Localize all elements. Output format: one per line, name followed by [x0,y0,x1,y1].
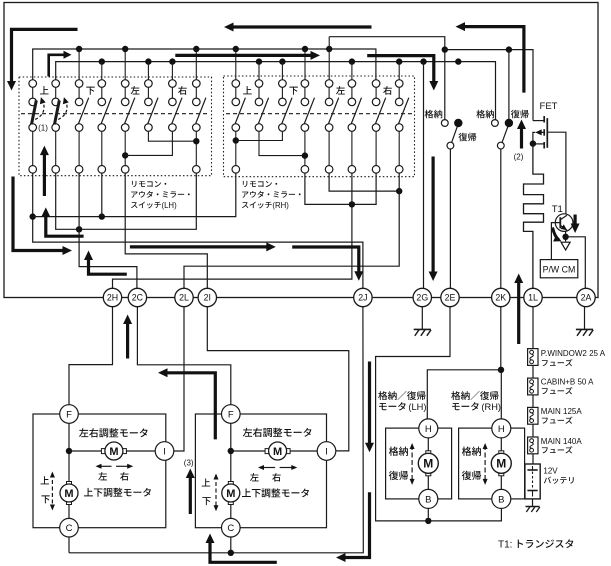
bold bottom up arrow [210,541,277,562]
svg-text:2A: 2A [581,293,592,303]
switch blade [398,98,408,124]
bold (2) up arrow [520,127,523,149]
fuse MAIN 140A [528,437,538,454]
UD adjust motor M [67,482,72,486]
blade [502,127,508,143]
internal vertical wire [68,423,70,483]
switch caption RH [243,181,277,187]
svg-text:M: M [423,457,433,471]
fuse MAIN 125A [528,407,538,424]
terminal I [317,442,336,461]
svg-text:H: H [425,424,432,435]
wire W1 to mirror retract switch [329,37,445,120]
T1 emitter lead [565,231,567,242]
svg-text:(LH): (LH) [408,402,426,412]
terminal I [155,442,174,461]
switch blade [351,98,361,124]
LH switch col4 [101,87,103,98]
svg-text:(RH): (RH) [272,201,289,210]
FET gate lead to T1 [547,132,566,214]
Y1 wire RH col1 to LH col1 [33,173,236,217]
svg-text:(RH): (RH) [481,402,501,412]
svg-text:F: F [66,409,72,420]
svg-text:2C: 2C [132,293,144,303]
motor M [427,438,429,454]
bus drop wires [78,49,80,80]
svg-text:2E: 2E [445,293,456,303]
LH mirror assembly [33,414,166,528]
connector 2L [175,288,193,306]
LH switch col6 [147,87,149,98]
retract motor RH [459,428,525,499]
LH switch col1 [32,87,34,98]
terminal C [60,518,79,537]
svg-text:1L: 1L [528,293,538,303]
LH col6-col8 link [148,131,196,141]
svg-text:(1): (1) [38,123,48,132]
ground below 2G [421,307,423,330]
terminal B [492,489,511,508]
RH C drop [230,537,232,553]
mechanical coupling dashed line RH [226,113,412,115]
RH mirror assembly [195,414,326,528]
bold path y=274 up arrow [89,258,127,275]
bold corner arrow near col2 [49,55,66,77]
RH switch col5 [328,87,330,98]
RH col2-col4 link [259,131,305,155]
RH switch col7 [375,87,377,98]
wire 2E to B bus [376,307,502,521]
label 復帰 (switch A) [458,133,476,142]
switch direction labels [40,86,49,94]
bold up arrow near 1L [517,281,520,344]
wire 2C to RH mirror F [137,307,230,405]
LH col3 wire to 2C [79,173,137,288]
terminal H [492,419,511,438]
fuse CABIN+B 50A [528,378,538,395]
bold arrow row y=55 [175,54,313,57]
svg-text:B: B [425,494,431,505]
svg-text:M: M [226,488,235,500]
LH switch col8 [195,87,197,98]
T1 base lead to P/W CM [551,223,560,260]
bold flow arrow top-left [12,29,78,82]
LH switch col7 [171,87,173,98]
svg-text:F: F [228,409,234,420]
terminal F [60,405,79,424]
bold up arrows in LH switch box [43,153,46,197]
connector 2A [577,288,595,306]
connector 2G [413,288,431,306]
terminal H [419,419,438,438]
wire 1L down through fuses [532,307,534,464]
label 格納 (switch A) [425,110,443,119]
switch blade (actuated) [32,100,37,124]
wire 2J to common C bus [69,307,363,553]
battery ground [532,499,534,507]
LR adjust motor M [231,450,265,452]
svg-text:2G: 2G [416,293,428,303]
bus wire 1 (y=49) [33,49,376,80]
LH col1 wire to 2J [33,173,363,288]
connector 2E [441,288,459,306]
switch blade [101,98,111,124]
wire to retract switch B closed contact [508,50,510,120]
connector 2H [103,288,121,306]
motor M [500,438,502,454]
LR adjust motor M [69,450,101,452]
RH switch col4 [304,87,306,98]
connector 2C [128,288,146,306]
fuse P.WINDOW2 25A [528,349,538,366]
svg-text:(2): (2) [514,153,524,162]
internal vertical wire [230,423,232,483]
RH switch col2 [258,87,260,98]
svg-text:B: B [498,494,504,505]
RH col8 wire to 2L [184,173,399,288]
remote mirror switch box LH [19,77,212,176]
RH switch col3 [281,87,283,98]
LH switch col3 [78,87,80,98]
switch blade [258,98,268,124]
bus wire 2 (y=61.6) [56,62,496,120]
wire 2L to LH mirror I [174,307,184,451]
connector 1L [524,288,542,306]
switch blade (actuated) [55,100,60,124]
svg-text:MAIN 125A: MAIN 125A [541,407,583,416]
retract/return switch B (to 2K) [492,120,499,127]
svg-text:(3): (3) [184,459,194,468]
bold (3) up arrow [189,476,192,514]
LH C drop [68,537,70,553]
bold arrow into 2G/2E area [432,157,435,274]
retract motor LH [386,428,452,499]
svg-text:H: H [498,424,505,435]
bold down arrow right of T1 [573,215,576,227]
mechanical coupling dashed line LH [21,113,209,115]
LR arrows [98,465,112,467]
svg-text:T1: T1 [552,204,563,215]
switch blade [235,98,245,124]
wire 2K to H terminals [500,307,503,419]
wire to connector 1L / FET drain [445,50,533,121]
LH col5-col7 link [122,152,128,158]
wire 2H to LH mirror F [69,307,113,405]
switch blade [196,98,206,124]
battery 12V [525,464,540,499]
LH mirror labels [79,428,148,437]
RH switch col6 [351,87,353,98]
bold left arrow above LH mirror [165,373,216,440]
LH col2-col8 U link [56,173,197,229]
LH switch col5 [124,87,126,98]
wire T1 emitter to 2A [566,237,586,288]
bold arrow row y=247 to 2J [130,245,269,248]
UD double arrow [51,474,53,509]
UD double arrow [215,476,217,510]
svg-text:FET: FET [540,101,558,112]
svg-text:I: I [163,446,166,457]
wire bus2 to connector 2G [423,62,425,289]
switch blade [148,98,158,124]
wire 2I to RH mirror I [207,307,348,451]
bold curved arrow at T1 [553,228,560,241]
actuation arc arrow [35,99,44,119]
svg-text:T1:: T1: [498,540,512,551]
svg-text:P.WINDOW2 25 A: P.WINDOW2 25 A [541,349,606,358]
svg-text:M: M [64,488,73,500]
terminal F [222,405,241,424]
connector 2I [198,288,216,306]
svg-text:P/W CM: P/W CM [543,264,576,274]
svg-text:2J: 2J [358,293,367,303]
LH B drop [427,508,429,521]
connector 2J [354,288,372,306]
svg-text:CABIN+B 50 A: CABIN+B 50 A [541,378,594,387]
LH switch col2 [55,87,57,98]
label 格納 (switch B) [476,110,494,119]
RH mirror labels [243,428,312,437]
svg-text:(LH): (LH) [162,201,178,210]
svg-text:I: I [325,446,328,457]
bold left arrow top middle [231,25,372,28]
P/W CM box [540,260,578,278]
RH col5-col8 link [329,173,399,191]
bold up arrow between 2H 2C [126,322,129,359]
RH switch col8 [398,87,400,98]
bold flow left side down to right arrow [13,177,66,251]
svg-text:M: M [496,457,506,471]
switch blade [78,98,88,124]
bold to bottom left arrow [343,492,370,557]
actuation arc arrow [58,99,67,119]
LH col5 wire to 2I [125,173,207,288]
terminal C [222,518,241,537]
svg-text:C: C [227,523,234,534]
connector 2K [492,288,510,306]
LH col4 drop [101,173,103,217]
resistor (square zigzag) [524,144,544,289]
svg-text:M: M [273,446,282,458]
svg-text:M: M [109,446,118,458]
hollow arrow [561,242,570,250]
remote mirror switch box RH [224,76,415,177]
switch blade [375,98,385,124]
terminal B [419,489,438,508]
bold down arrow left of retract motors [368,362,371,445]
svg-text:2H: 2H [107,293,118,303]
RH col1-col3 link [233,137,239,143]
svg-text:2I: 2I [204,293,211,303]
switch blade [304,98,314,124]
bold left arrow top right [462,27,524,93]
FET transistor [546,118,548,148]
UD adjust motor M [228,482,233,486]
RH col6 wire to 2H [113,173,352,288]
switch caption LH [132,181,166,187]
svg-text:2L: 2L [179,293,189,303]
retract/return switch A (to 2E) [441,120,448,127]
RH col4-col7 link [305,173,376,204]
switch blade [172,98,182,124]
svg-text:MAIN 140A: MAIN 140A [541,437,583,446]
switch blade [124,98,134,124]
svg-text:C: C [66,523,73,534]
svg-text:12V: 12V [543,467,558,476]
power window control unit frame [4,3,598,298]
label 復帰 (switch B) [511,110,529,119]
blade [452,127,458,143]
RH switch col1 [235,87,237,98]
LR arrows [260,467,275,469]
switch blade [328,98,338,124]
ground below 2A [584,307,586,330]
switch blade [282,98,292,124]
svg-text:2K: 2K [495,293,506,303]
